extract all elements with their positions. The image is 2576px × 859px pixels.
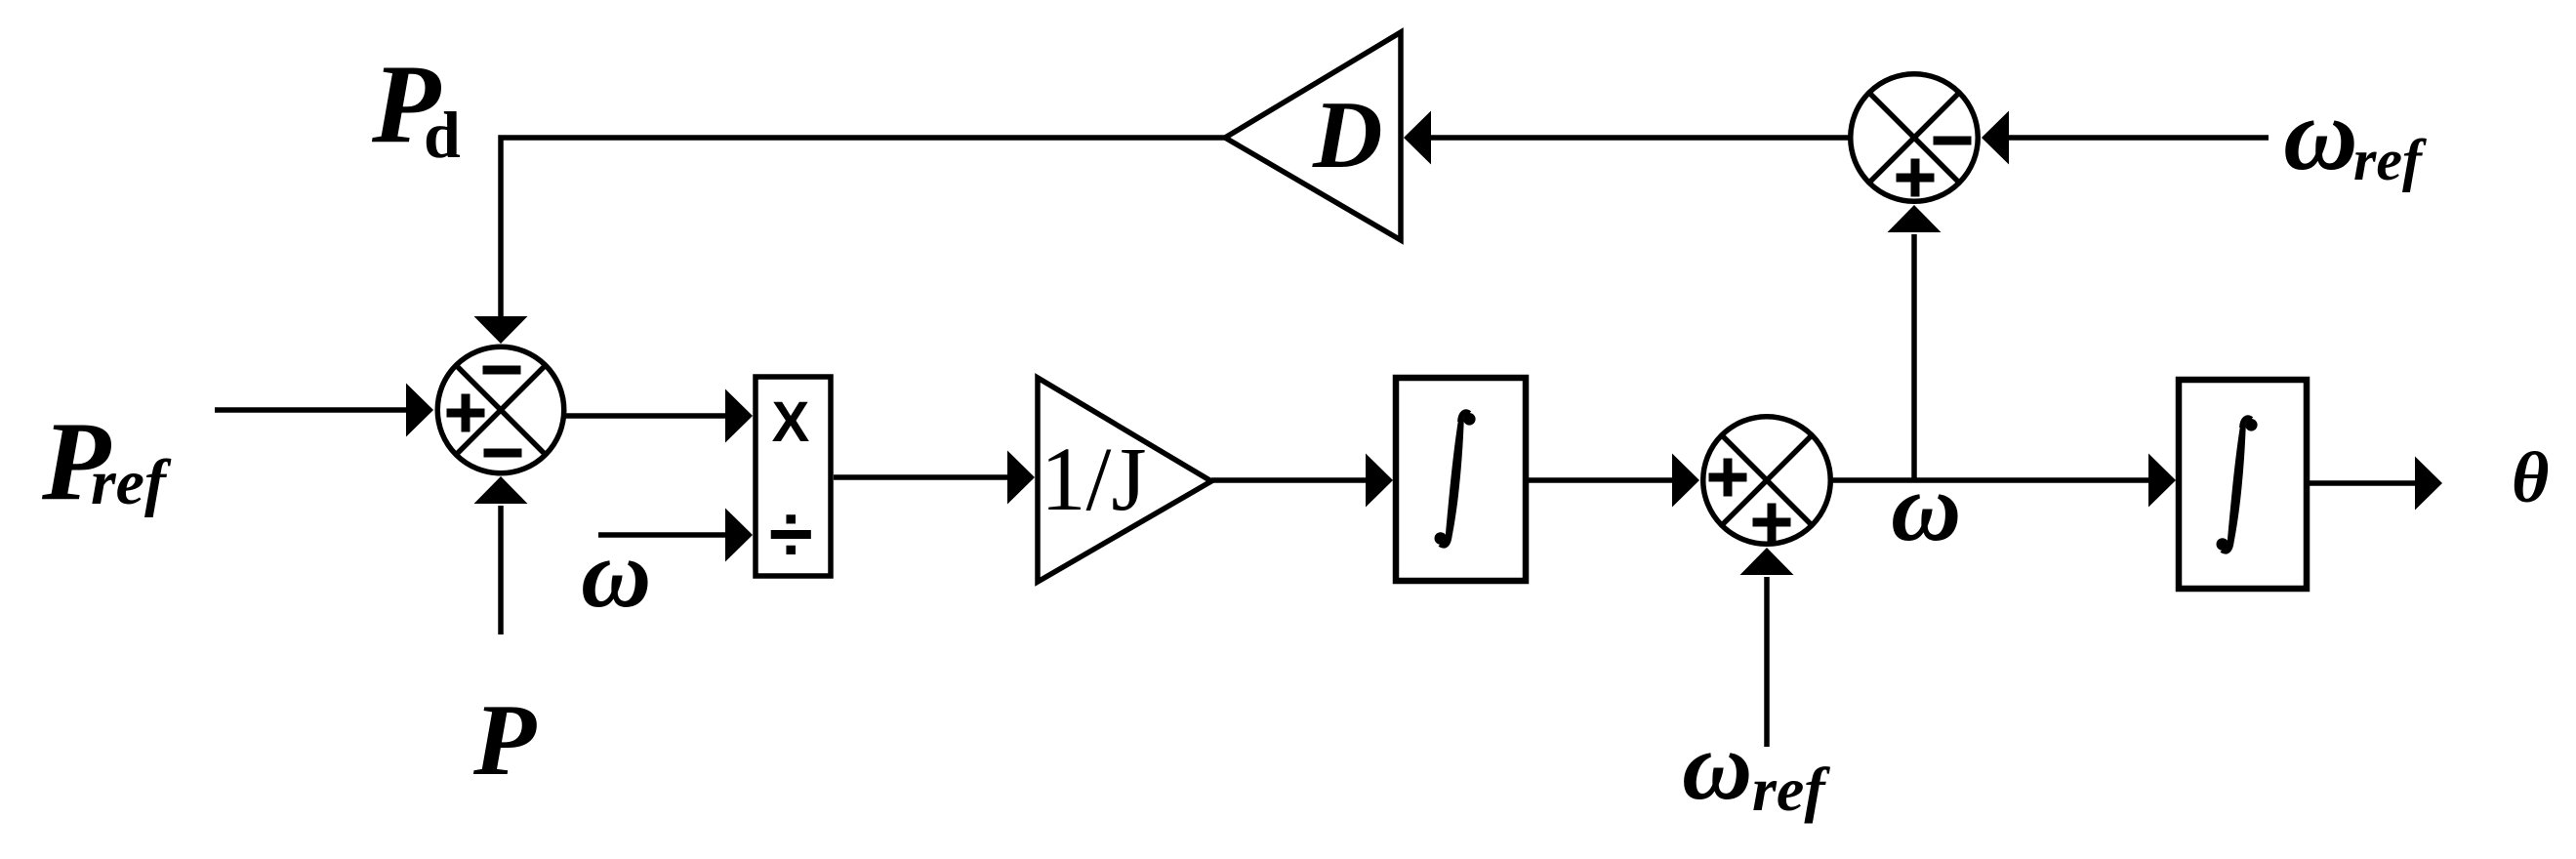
svg-text:ω: ω [2283, 77, 2358, 191]
svg-text:D: D [1312, 82, 1383, 188]
svg-text:ref: ref [1752, 755, 1830, 824]
svg-text:P: P [472, 682, 537, 797]
svg-text:X: X [772, 390, 810, 454]
svg-text:1/J: 1/J [1041, 429, 1147, 530]
svg-text:θ: θ [2512, 438, 2549, 518]
svg-text:ref: ref [2353, 128, 2427, 192]
svg-text:ω: ω [1682, 712, 1752, 820]
svg-text:ref: ref [91, 447, 172, 518]
svg-text:d: d [424, 98, 461, 172]
svg-text:÷: ÷ [769, 490, 813, 579]
svg-text:ω: ω [1891, 453, 1961, 561]
svg-text:ω: ω [581, 519, 651, 628]
